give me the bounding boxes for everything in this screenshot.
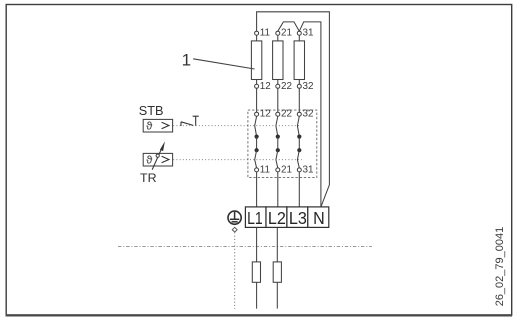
K2 fixed contact dot upper <box>276 135 280 139</box>
fuse F2 <box>273 262 281 282</box>
heating element R1 <box>251 35 261 84</box>
terminal 12 <box>255 84 259 88</box>
contact K1 <box>255 109 271 176</box>
wire R1 to contact K1 <box>256 88 258 112</box>
svg-text:1: 1 <box>182 50 191 69</box>
wire between K1 contacts <box>256 137 258 151</box>
wire K3 to L3 <box>298 172 300 207</box>
STB thermostat box <box>143 119 172 132</box>
terminal 12 of K1 <box>255 112 259 116</box>
terminal 22 <box>276 84 280 88</box>
K1 upper blade (STB controlled) <box>255 116 257 136</box>
terminal L3 box <box>287 207 308 228</box>
svg-text:L2: L2 <box>268 208 286 228</box>
terminal N box <box>308 207 329 228</box>
TR greater-than symbol <box>162 156 169 162</box>
svg-text:21: 21 <box>281 28 292 39</box>
K3 fixed contact dot upper <box>297 135 301 139</box>
earth dotted line down <box>234 232 236 309</box>
TR control dotted line <box>173 159 302 161</box>
svg-text:22: 22 <box>281 109 292 120</box>
K1 fixed contact dot upper <box>255 135 259 139</box>
protective earth symbol <box>228 211 241 224</box>
svg-text:22: 22 <box>281 81 292 92</box>
terminal 11 <box>255 31 259 35</box>
terminal 21 <box>276 31 280 35</box>
wire between K2 contacts <box>277 137 279 151</box>
phantom centre line <box>118 246 372 248</box>
svg-text:12: 12 <box>260 81 271 92</box>
wire between K3 contacts <box>298 137 300 151</box>
heating element R3 <box>294 35 304 84</box>
wire R2 to contact K2 <box>277 88 279 112</box>
terminal 22 of K2 <box>276 112 280 116</box>
terminal 21 of K2 <box>276 168 280 172</box>
wire top feed: node 11 to N rail <box>257 12 330 207</box>
K1 lower blade (TR controlled) <box>255 150 257 168</box>
wire K2 to L2 <box>277 172 279 207</box>
STB greater-than symbol <box>162 122 169 128</box>
wire L1 down <box>256 228 258 309</box>
svg-text:N: N <box>313 208 325 228</box>
svg-text:26_02_79_0041: 26_02_79_0041 <box>494 227 506 307</box>
svg-text:ϑ: ϑ <box>146 155 153 167</box>
svg-text:TR: TR <box>140 171 157 185</box>
K2 fixed contact dot lower <box>276 148 280 152</box>
STB break contact with manual reset <box>181 116 199 126</box>
svg-text:11: 11 <box>260 28 271 39</box>
wire R3 to contact K3 <box>298 88 300 112</box>
svg-text:31: 31 <box>303 164 314 175</box>
terminal L1 box <box>245 207 266 228</box>
heating element R2 <box>273 35 283 84</box>
K2 upper blade (STB controlled) <box>276 116 278 136</box>
TR thermostat box <box>143 153 172 166</box>
terminal L2 box <box>266 207 287 228</box>
contact K2 <box>276 109 293 176</box>
wire L2 down <box>276 228 278 309</box>
terminal 32 of K3 <box>297 112 301 116</box>
terminal 31 <box>297 31 301 35</box>
wire bridge 21-31 <box>278 22 300 31</box>
fuse F1 <box>252 262 260 282</box>
K3 lower blade (TR controlled) <box>297 150 299 168</box>
svg-text:32: 32 <box>303 109 314 120</box>
earth diamond node <box>232 227 237 232</box>
contact K3 <box>297 109 314 176</box>
wire 31 to N column <box>299 22 321 207</box>
svg-text:12: 12 <box>260 109 271 120</box>
wire K1 to L1 <box>256 172 258 207</box>
svg-text:ϑ: ϑ <box>146 121 153 133</box>
svg-text:31: 31 <box>303 28 314 39</box>
K1 fixed contact dot lower <box>255 148 259 152</box>
svg-text:11: 11 <box>260 164 271 175</box>
terminal 31 of K3 <box>297 168 301 172</box>
STB control dotted line <box>173 125 299 127</box>
terminal block L1 L2 L3 N <box>245 207 328 228</box>
K2 lower blade (TR controlled) <box>276 150 278 168</box>
K3 fixed contact dot lower <box>297 148 301 152</box>
TR adjustability arrow <box>152 141 165 170</box>
K3 upper blade (STB controlled) <box>297 116 299 136</box>
contactor dashed enclosure <box>248 110 317 178</box>
svg-text:L1: L1 <box>247 208 263 228</box>
terminal 32 <box>297 84 301 88</box>
svg-text:L3: L3 <box>289 208 307 228</box>
leader line for label 1 <box>193 59 254 69</box>
terminal 11 of K1 <box>255 168 259 172</box>
svg-text:STB: STB <box>139 104 164 118</box>
svg-text:21: 21 <box>281 164 292 175</box>
svg-text:32: 32 <box>303 81 314 92</box>
